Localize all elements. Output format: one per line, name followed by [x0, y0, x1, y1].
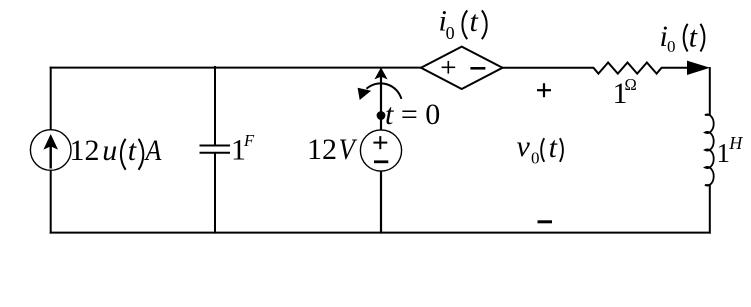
svg-text:12: 12	[307, 133, 337, 166]
svg-text:t: t	[549, 131, 558, 164]
svg-text:A: A	[144, 134, 162, 167]
wire resistor to arrow	[661, 67, 692, 69]
inductor L1	[705, 114, 714, 185]
wire top-right (diamond to resistor)	[502, 67, 594, 69]
svg-text:Ω: Ω	[625, 75, 637, 94]
current source I1 arrow	[50, 142, 52, 169]
dependent source U1 diamond	[421, 47, 503, 89]
svg-text:F: F	[243, 131, 255, 150]
switch arm with arrowhead	[380, 75, 382, 116]
svg-text:0: 0	[446, 23, 455, 43]
svg-text:1: 1	[717, 138, 731, 168]
current source I1 circle	[30, 130, 71, 171]
svg-text:t = 0: t = 0	[385, 98, 440, 131]
wire right side	[709, 67, 711, 115]
dependent source U1 plus	[442, 66, 456, 68]
svg-text:t: t	[128, 134, 137, 167]
wire top-left (node top to diamond)	[50, 67, 421, 69]
resistor R1 zigzag	[594, 63, 662, 74]
v0(t) minus	[538, 220, 553, 223]
wire bottom	[50, 232, 711, 234]
svg-text:H: H	[728, 133, 743, 153]
svg-text:V: V	[339, 134, 358, 167]
svg-text:v: v	[517, 130, 531, 163]
switch node dot	[377, 111, 386, 120]
wire left side	[50, 67, 52, 130]
voltage source V1 wire above	[380, 115, 382, 130]
dependent source U1 minus	[470, 67, 485, 70]
voltage source V1 minus	[374, 160, 388, 163]
svg-text:u: u	[102, 134, 117, 167]
svg-text:12: 12	[70, 134, 100, 167]
svg-text:0: 0	[531, 149, 540, 168]
voltage source V1 plus	[373, 142, 387, 144]
svg-text:t: t	[689, 21, 698, 54]
capacitor C1 bottom wire	[214, 153, 216, 234]
svg-text:t: t	[470, 5, 479, 38]
v0(t) plus	[537, 89, 551, 91]
voltage source V1 wire below	[380, 171, 382, 234]
current arrow i0(t) head	[687, 61, 710, 75]
capacitor C1 top wire	[214, 66, 216, 145]
switch motion arc arrow	[367, 83, 402, 99]
capacitor C1 plates	[200, 145, 231, 147]
svg-text:0: 0	[667, 37, 676, 56]
voltage source V1 circle	[360, 130, 401, 171]
